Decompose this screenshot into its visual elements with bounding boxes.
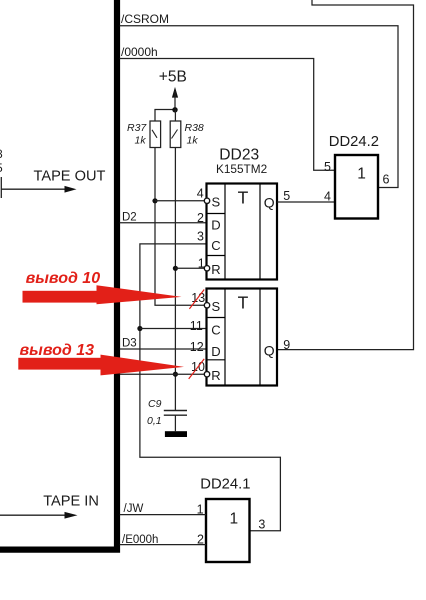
- svg-text:D: D: [211, 218, 220, 233]
- svg-text:R: R: [211, 262, 220, 277]
- svg-text:5: 5: [0, 161, 3, 175]
- wire (R pin 1 of DD23.1): [175, 267, 204, 269]
- pin 13 inversion circle: [204, 303, 209, 308]
- gate DD24.1: [206, 499, 250, 562]
- svg-text:Q: Q: [264, 195, 275, 211]
- svg-text:2: 2: [197, 211, 204, 225]
- wire (net to R pin 10 from bus): [120, 373, 205, 375]
- svg-text:S: S: [212, 194, 221, 209]
- wire (clock loop from DD24.1 output to C pins): [140, 244, 281, 531]
- svg-text:TAPE OUT: TAPE OUT: [34, 169, 106, 185]
- svg-text:D: D: [211, 344, 220, 359]
- bus bar (thick board edge): [0, 0, 117, 550]
- svg-text:1k: 1k: [187, 135, 199, 147]
- svg-text:R37: R37: [127, 122, 147, 134]
- red strike on pin 10: [189, 359, 205, 379]
- svg-text:5: 5: [283, 189, 290, 203]
- svg-text:Q: Q: [264, 343, 275, 359]
- wire (S pin 4 of DD23.1): [155, 200, 205, 202]
- svg-text:8: 8: [0, 147, 3, 161]
- svg-text:D3: D3: [122, 338, 137, 350]
- wire (+5V rail to R38): [174, 110, 176, 122]
- svg-text:DD24.2: DD24.2: [329, 134, 379, 150]
- svg-text:T: T: [238, 188, 249, 208]
- svg-text:1k: 1k: [135, 135, 147, 147]
- svg-text:5: 5: [324, 160, 331, 174]
- pin 1 inversion circle: [204, 266, 209, 271]
- red strike on pin 13: [189, 290, 204, 309]
- svg-text:D2: D2: [122, 212, 137, 224]
- junction (R2 node): [173, 372, 178, 377]
- svg-text:R38: R38: [185, 122, 204, 134]
- svg-text:/JW: /JW: [124, 503, 144, 515]
- wire (+5V rail to R37): [155, 110, 175, 122]
- net /E000h wire (pin 2): [120, 544, 206, 546]
- power +5B arrow symbol: [172, 87, 178, 110]
- junction (clock to C pin 11): [137, 326, 142, 331]
- flip-flop DD23.1: [207, 184, 278, 280]
- svg-text:вывод 13: вывод 13: [20, 342, 95, 359]
- net /JW wire (pin 1): [120, 514, 206, 516]
- svg-text:4: 4: [197, 186, 204, 200]
- svg-text:K155TM2: K155TM2: [216, 162, 267, 176]
- svg-text:DD24.1: DD24.1: [200, 476, 250, 492]
- TAPE OUT arrow: [1, 186, 76, 193]
- wire (R38 lead down through R pins to C9): [174, 148, 176, 411]
- svg-text:6: 6: [383, 173, 390, 187]
- svg-text:C: C: [211, 323, 220, 338]
- svg-text:1: 1: [230, 510, 239, 527]
- flip-flop DD23.2: [207, 289, 278, 386]
- svg-text:11: 11: [190, 319, 203, 333]
- wire (connector stub): [0, 177, 2, 198]
- wire (DD23.1 Q pin 5 to DD24.2 pin 4): [277, 201, 335, 203]
- svg-text:1: 1: [357, 166, 366, 183]
- net /CSROM wire: [120, 26, 398, 188]
- svg-text:/CSROM: /CSROM: [121, 12, 169, 26]
- resistor R38: [170, 121, 181, 148]
- resistor R37: [150, 121, 161, 148]
- svg-text:R: R: [211, 368, 220, 383]
- capacitor C9: [164, 411, 187, 432]
- svg-text:3: 3: [258, 518, 265, 532]
- annotation arrow (вывод 10) pointing at crossed pin 13: [23, 285, 182, 304]
- svg-text:0,1: 0,1: [147, 415, 162, 427]
- svg-text:C: C: [211, 238, 220, 253]
- junction (R38 / R1 node): [173, 266, 178, 271]
- svg-text:DD23: DD23: [219, 147, 259, 164]
- svg-text:T: T: [238, 292, 249, 312]
- net D2 wire (D pin 2): [120, 222, 207, 224]
- svg-text:/0000h: /0000h: [121, 45, 158, 59]
- ground symbol: [165, 431, 187, 437]
- svg-text:TAPE IN: TAPE IN: [43, 494, 99, 510]
- svg-text:9: 9: [283, 338, 290, 352]
- gate DD24.2: [335, 155, 378, 219]
- wire (C pin 11 of DD23.2): [140, 328, 207, 330]
- svg-text:S: S: [212, 299, 221, 314]
- junction (R37 / S1 node): [152, 198, 157, 203]
- pin 10 inversion circle: [204, 372, 209, 377]
- net D3 wire (D pin 12): [120, 348, 207, 350]
- svg-text:вывод 10: вывод 10: [26, 270, 101, 287]
- TAPE IN arrow: [0, 512, 78, 519]
- net /0000h wire: [120, 59, 335, 171]
- svg-text:12: 12: [190, 340, 204, 354]
- svg-text:4: 4: [324, 189, 331, 203]
- svg-text:C9: C9: [148, 398, 162, 410]
- junction (+5V rail): [172, 107, 177, 112]
- annotation arrow (вывод 13) pointing at crossed pin 10: [18, 355, 184, 376]
- wire (R37 to S pin 4 and down to S pin 13): [155, 148, 205, 306]
- pin 4 inversion circle: [204, 198, 209, 203]
- wire (feedback from DD23.2 Q pin 9 to top edge): [277, 0, 414, 350]
- svg-text:3: 3: [197, 230, 204, 244]
- svg-text:+5B: +5B: [159, 69, 187, 86]
